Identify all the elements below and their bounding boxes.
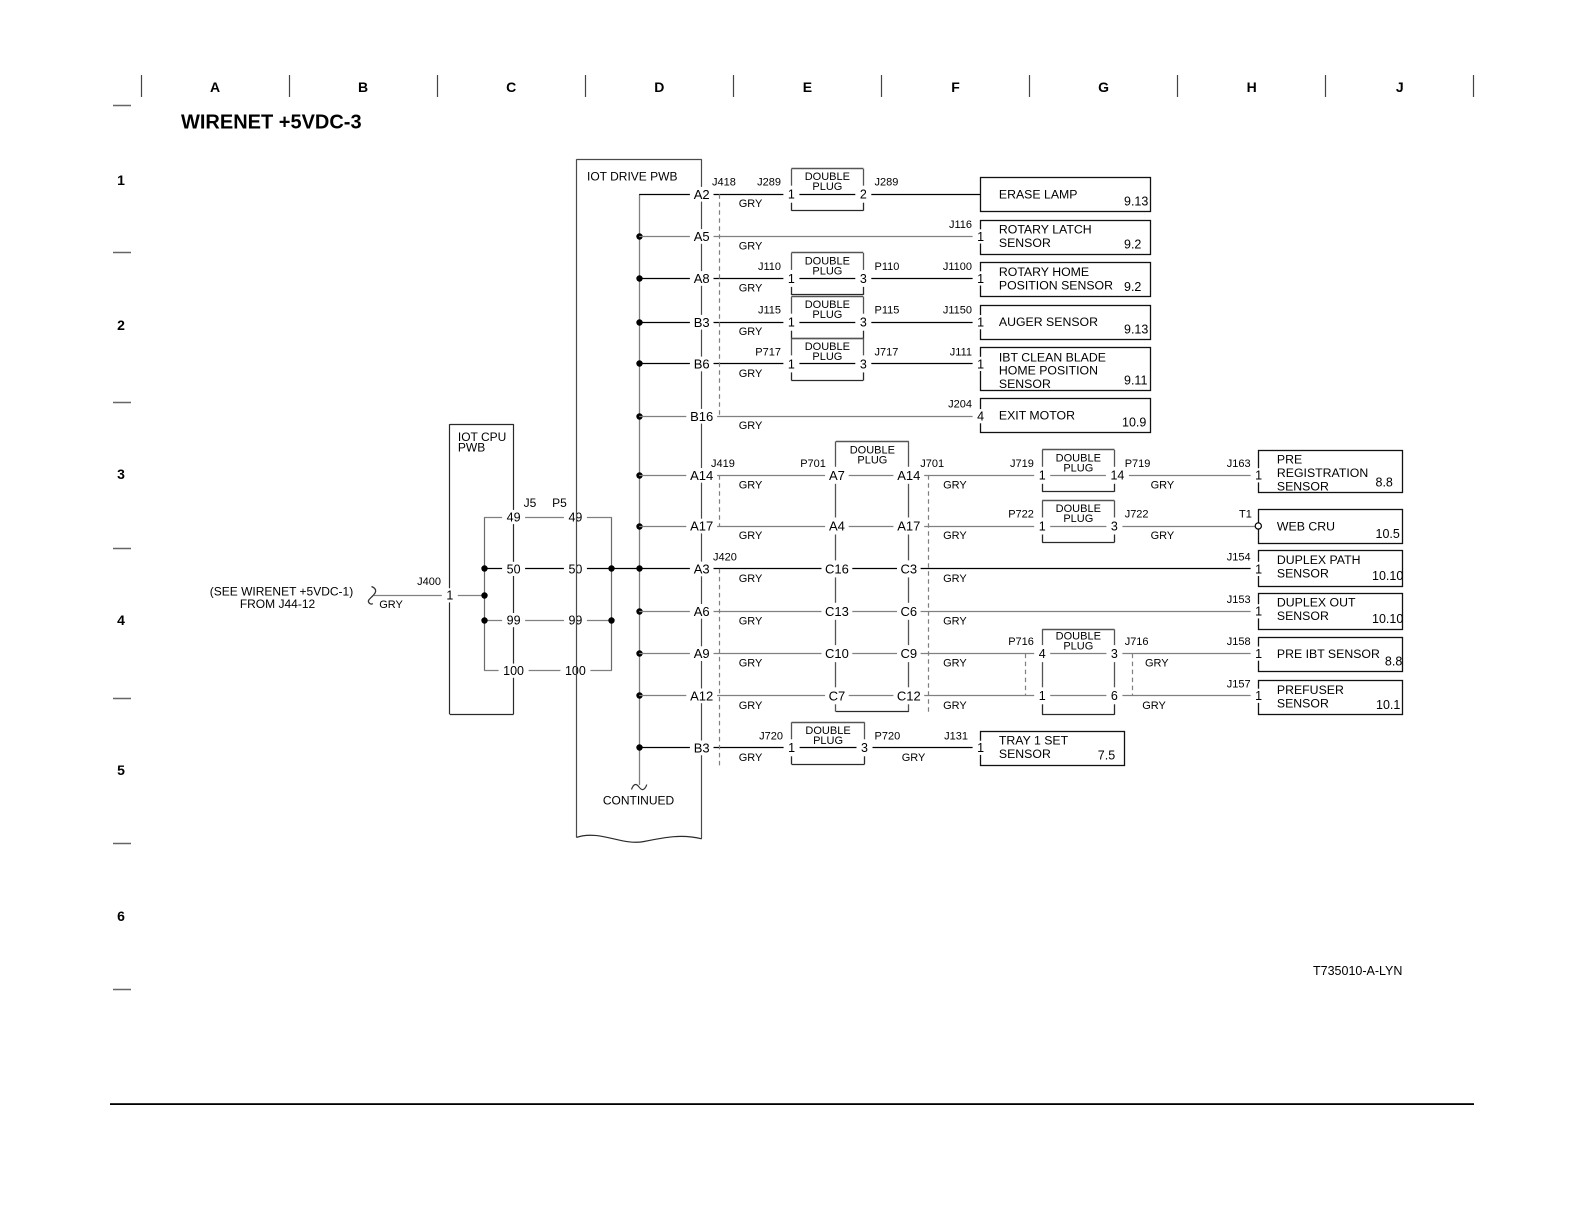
svg-text:2: 2 xyxy=(860,188,867,202)
svg-text:1: 1 xyxy=(788,357,795,371)
svg-text:F: F xyxy=(951,79,960,95)
svg-text:A5: A5 xyxy=(694,229,710,244)
svg-text:A9: A9 xyxy=(694,646,710,661)
svg-text:6: 6 xyxy=(1111,689,1118,703)
svg-text:10.10: 10.10 xyxy=(1372,569,1403,583)
svg-text:P717: P717 xyxy=(755,346,781,358)
svg-text:14: 14 xyxy=(1110,469,1124,483)
svg-text:J157: J157 xyxy=(1227,678,1251,690)
svg-text:2: 2 xyxy=(117,317,125,333)
svg-text:SENSOR: SENSOR xyxy=(999,377,1051,391)
rotary home position sensor xyxy=(973,263,1151,297)
svg-text:1: 1 xyxy=(788,741,795,755)
svg-text:GRY: GRY xyxy=(739,573,763,585)
svg-text:J720: J720 xyxy=(759,730,783,742)
svg-text:IOT DRIVE PWB: IOT DRIVE PWB xyxy=(587,170,677,184)
svg-text:1: 1 xyxy=(446,589,453,603)
svg-text:SENSOR: SENSOR xyxy=(1277,567,1329,581)
auger sensor xyxy=(973,306,1151,340)
connector J418 dashed line xyxy=(719,194,721,416)
svg-text:3: 3 xyxy=(1111,519,1118,533)
svg-text:J289: J289 xyxy=(757,177,781,189)
svg-text:C7: C7 xyxy=(829,688,846,703)
exit motor xyxy=(973,399,1151,433)
svg-text:PLUG: PLUG xyxy=(1063,462,1093,474)
double plug DP J115/P115 xyxy=(783,297,871,339)
svg-text:A4: A4 xyxy=(829,519,845,534)
IOT DRIVE PWB pin A14 xyxy=(686,468,717,483)
J5 pin labels 49/50/99/100 xyxy=(499,510,529,678)
svg-text:B6: B6 xyxy=(694,356,710,371)
svg-text:1: 1 xyxy=(977,741,984,755)
wire row B3 xyxy=(639,322,980,324)
svg-text:DUPLEX OUT: DUPLEX OUT xyxy=(1277,596,1356,610)
erase lamp xyxy=(981,178,1151,212)
svg-text:WEB CRU: WEB CRU xyxy=(1277,520,1335,534)
svg-text:A17: A17 xyxy=(690,519,713,534)
svg-text:EXIT MOTOR: EXIT MOTOR xyxy=(999,408,1075,422)
svg-text:PLUG: PLUG xyxy=(812,351,842,363)
svg-text:J115: J115 xyxy=(758,305,781,317)
svg-text:PRE: PRE xyxy=(1277,453,1302,467)
svg-text:A14: A14 xyxy=(690,468,713,483)
svg-text:TRAY 1 SET: TRAY 1 SET xyxy=(999,734,1069,748)
column header letters xyxy=(210,79,1404,95)
IOT DRIVE PWB pin A3 xyxy=(690,562,714,577)
svg-text:GRY: GRY xyxy=(739,368,763,380)
svg-text:ROTARY LATCH: ROTARY LATCH xyxy=(999,223,1092,237)
svg-text:100: 100 xyxy=(503,664,524,678)
labels GRY B3b xyxy=(739,752,926,764)
svg-text:J717: J717 xyxy=(875,346,899,358)
svg-text:10.10: 10.10 xyxy=(1372,612,1403,626)
duplex path sensor xyxy=(1251,551,1404,587)
svg-text:C16: C16 xyxy=(825,561,849,576)
svg-text:J110: J110 xyxy=(758,261,781,273)
IOT DRIVE PWB pin B3 xyxy=(690,741,714,756)
svg-text:SENSOR: SENSOR xyxy=(1277,609,1329,623)
svg-text:WIRENET +5VDC-3: WIRENET +5VDC-3 xyxy=(181,112,362,134)
svg-text:P722: P722 xyxy=(1008,509,1034,521)
svg-text:A: A xyxy=(210,79,220,95)
svg-text:1: 1 xyxy=(1039,689,1046,703)
svg-text:H: H xyxy=(1247,79,1257,95)
svg-text:IBT CLEAN BLADE: IBT CLEAN BLADE xyxy=(999,350,1106,364)
svg-text:J163: J163 xyxy=(1227,458,1251,470)
svg-text:ROTARY HOME: ROTARY HOME xyxy=(999,265,1089,279)
svg-text:1: 1 xyxy=(977,272,984,286)
svg-text:B16: B16 xyxy=(690,409,713,424)
svg-text:J5: J5 xyxy=(524,496,537,510)
svg-text:B3: B3 xyxy=(694,740,710,755)
wire row A5 xyxy=(639,236,980,238)
svg-text:GRY: GRY xyxy=(739,420,763,432)
junction dots P5 bracket xyxy=(608,565,614,623)
svg-text:GRY: GRY xyxy=(739,282,763,294)
svg-text:C: C xyxy=(506,79,516,95)
wire row A8 xyxy=(639,278,980,280)
column header ticks xyxy=(142,75,1474,97)
svg-text:A2: A2 xyxy=(694,187,710,202)
bottom rule xyxy=(110,1103,1474,1105)
svg-text:J131: J131 xyxy=(944,730,968,742)
svg-text:J1150: J1150 xyxy=(943,305,972,317)
svg-text:P5: P5 xyxy=(552,496,567,510)
bus junction dots xyxy=(636,233,642,750)
left margin row dashes xyxy=(113,106,131,990)
svg-text:3: 3 xyxy=(117,466,125,482)
svg-text:7.5: 7.5 xyxy=(1098,748,1115,762)
svg-text:J1100: J1100 xyxy=(943,261,972,273)
svg-text:4: 4 xyxy=(117,612,125,628)
svg-text:G: G xyxy=(1098,79,1109,95)
P5 bracket (right) xyxy=(611,517,613,671)
wire row A6 xyxy=(639,611,1258,613)
svg-text:A12: A12 xyxy=(690,688,713,703)
wire row A3 xyxy=(639,568,1258,570)
svg-text:T735010-A-LYN: T735010-A-LYN xyxy=(1313,964,1402,978)
IOT CPU PWB box xyxy=(450,424,514,714)
svg-text:PLUG: PLUG xyxy=(812,309,842,321)
svg-text:PWB: PWB xyxy=(458,441,485,455)
svg-text:1: 1 xyxy=(977,316,984,330)
wire J400 to IOT CPU PWB xyxy=(374,595,484,597)
svg-text:1: 1 xyxy=(1255,562,1262,576)
svg-text:1: 1 xyxy=(788,272,795,286)
IBT clean blade home position sensor xyxy=(973,348,1151,392)
bus break squiggle xyxy=(632,785,647,790)
svg-text:GRY: GRY xyxy=(943,615,967,627)
svg-text:B: B xyxy=(358,79,368,95)
wire row A17 xyxy=(639,526,1255,528)
wire row 99 (J5-P5) xyxy=(484,620,612,622)
IOT DRIVE PWB pin B16 xyxy=(686,409,717,424)
prefuser sensor xyxy=(1251,681,1403,715)
double plug DP J719/P719 xyxy=(1034,450,1129,492)
wire row A2 xyxy=(639,194,980,196)
double plug P716/J716 xyxy=(1034,629,1122,714)
svg-text:PRE IBT SENSOR: PRE IBT SENSOR xyxy=(1277,647,1380,661)
double plug DP J720/P720 xyxy=(784,722,873,764)
svg-text:P720: P720 xyxy=(875,730,901,742)
svg-text:A17: A17 xyxy=(897,519,920,534)
svg-text:J419: J419 xyxy=(711,458,735,470)
svg-text:8.8: 8.8 xyxy=(1385,655,1402,669)
wire row 49 (J5-P5) xyxy=(484,517,612,519)
svg-text:A6: A6 xyxy=(694,604,710,619)
wire break squiggle at J400 feed xyxy=(368,587,375,605)
double plug DP J110/P110 xyxy=(783,253,871,295)
labels GRY A3 xyxy=(739,573,968,585)
svg-text:C13: C13 xyxy=(825,604,849,619)
svg-text:1: 1 xyxy=(977,357,984,371)
wire row 50 (J5-P5 to bus) xyxy=(484,568,639,570)
wire row B3b xyxy=(639,747,980,749)
svg-text:3: 3 xyxy=(861,741,868,755)
svg-text:J418: J418 xyxy=(712,177,736,189)
connector J5 / P5 labels xyxy=(524,496,568,510)
svg-text:AUGER SENSOR: AUGER SENSOR xyxy=(999,315,1098,329)
connector J701 dashed line xyxy=(928,475,930,713)
svg-text:GRY: GRY xyxy=(739,198,763,210)
svg-text:PLUG: PLUG xyxy=(813,735,843,747)
svg-text:GRY: GRY xyxy=(739,326,763,338)
pre IBT sensor xyxy=(1251,638,1403,672)
svg-text:1: 1 xyxy=(1039,519,1046,533)
svg-text:REGISTRATION: REGISTRATION xyxy=(1277,466,1368,480)
svg-text:SENSOR: SENSOR xyxy=(1277,479,1329,493)
svg-text:50: 50 xyxy=(568,562,582,576)
svg-text:GRY: GRY xyxy=(902,752,926,764)
+5VDC bus inside IOT DRIVE PWB xyxy=(639,194,641,785)
left margin row numbers xyxy=(117,172,125,924)
svg-text:D: D xyxy=(654,79,664,95)
svg-text:1: 1 xyxy=(1255,647,1262,661)
svg-text:J154: J154 xyxy=(1227,551,1251,563)
svg-text:50: 50 xyxy=(507,562,521,576)
svg-text:1: 1 xyxy=(1255,469,1262,483)
svg-text:6: 6 xyxy=(117,908,125,924)
svg-text:49: 49 xyxy=(507,510,521,524)
IOT DRIVE PWB pin A17 xyxy=(686,519,717,534)
svg-text:B3: B3 xyxy=(694,315,710,330)
svg-text:1: 1 xyxy=(788,188,795,202)
wire row A14 xyxy=(639,475,1258,477)
labels GRY A17 xyxy=(739,530,1175,542)
svg-text:1: 1 xyxy=(788,316,795,330)
svg-text:T1: T1 xyxy=(1239,509,1252,521)
svg-text:DUPLEX PATH: DUPLEX PATH xyxy=(1277,553,1361,567)
svg-text:1: 1 xyxy=(1255,605,1262,619)
svg-text:10.9: 10.9 xyxy=(1122,416,1146,430)
wire row A9 xyxy=(639,653,1258,655)
labels GRY A12 xyxy=(739,700,1167,712)
tray 1 set sensor xyxy=(973,732,1125,766)
svg-text:J158: J158 xyxy=(1227,636,1251,648)
connector J419 dashed line xyxy=(719,475,721,526)
svg-text:GRY: GRY xyxy=(943,658,967,670)
svg-text:P719: P719 xyxy=(1125,458,1151,470)
double plug DP J289 xyxy=(783,169,871,211)
svg-text:P716: P716 xyxy=(1008,636,1034,648)
svg-text:GRY: GRY xyxy=(739,615,763,627)
junction dots J5 bracket xyxy=(481,565,487,623)
svg-text:3: 3 xyxy=(1111,647,1118,661)
IOT DRIVE PWB pin A2 xyxy=(690,187,714,202)
svg-text:4: 4 xyxy=(977,410,984,424)
svg-text:J111: J111 xyxy=(950,346,972,358)
svg-text:1: 1 xyxy=(117,172,125,188)
svg-text:GRY: GRY xyxy=(739,479,763,491)
svg-text:POSITION SENSOR: POSITION SENSOR xyxy=(999,279,1113,293)
svg-text:100: 100 xyxy=(565,664,586,678)
svg-text:8.8: 8.8 xyxy=(1376,476,1393,490)
svg-text:49: 49 xyxy=(568,510,582,524)
svg-text:PLUG: PLUG xyxy=(812,265,842,277)
svg-text:GRY: GRY xyxy=(1151,479,1175,491)
svg-text:FROM J44-12: FROM J44-12 xyxy=(240,597,316,611)
svg-text:9.13: 9.13 xyxy=(1124,195,1148,209)
svg-text:9.2: 9.2 xyxy=(1124,280,1141,294)
svg-text:1: 1 xyxy=(977,230,984,244)
svg-text:J400: J400 xyxy=(417,576,441,588)
svg-text:C10: C10 xyxy=(825,646,849,661)
svg-text:4: 4 xyxy=(1039,647,1046,661)
svg-text:GRY: GRY xyxy=(739,530,763,542)
svg-text:GRY: GRY xyxy=(739,752,763,764)
rotary latch sensor xyxy=(973,221,1151,255)
svg-text:J: J xyxy=(1396,79,1404,95)
svg-text:PLUG: PLUG xyxy=(1063,513,1093,525)
IOT DRIVE PWB box xyxy=(576,159,701,842)
svg-text:99: 99 xyxy=(507,614,521,628)
svg-text:C12: C12 xyxy=(897,688,921,703)
svg-text:10.1: 10.1 xyxy=(1376,698,1400,712)
svg-text:J204: J204 xyxy=(948,399,972,411)
svg-text:GRY: GRY xyxy=(1145,658,1169,670)
svg-text:9.11: 9.11 xyxy=(1124,374,1147,388)
svg-text:99: 99 xyxy=(568,614,582,628)
svg-text:J420: J420 xyxy=(713,551,737,563)
svg-text:PLUG: PLUG xyxy=(1063,641,1093,653)
svg-text:PLUG: PLUG xyxy=(812,181,842,193)
labels GRY A6 xyxy=(739,615,968,627)
svg-text:P701: P701 xyxy=(800,458,826,470)
svg-text:A8: A8 xyxy=(694,271,710,286)
svg-text:C6: C6 xyxy=(900,604,917,619)
wire row A12 xyxy=(639,695,1258,697)
note (SEE WIRENET +5VDC-1) FROM J44-12 xyxy=(210,585,353,612)
IOT DRIVE PWB pin A5 xyxy=(690,229,714,244)
svg-text:GRY: GRY xyxy=(379,599,403,611)
IOT DRIVE PWB pin B6 xyxy=(690,357,714,372)
svg-text:GRY: GRY xyxy=(943,479,967,491)
svg-text:J116: J116 xyxy=(949,219,972,231)
svg-text:SENSOR: SENSOR xyxy=(999,747,1051,761)
svg-text:GRY: GRY xyxy=(1142,700,1166,712)
svg-text:3: 3 xyxy=(860,357,867,371)
svg-text:PREFUSER: PREFUSER xyxy=(1277,683,1344,697)
svg-text:PLUG: PLUG xyxy=(857,454,887,466)
svg-text:J701: J701 xyxy=(920,458,944,470)
svg-text:9.13: 9.13 xyxy=(1124,323,1148,337)
svg-text:ERASE LAMP: ERASE LAMP xyxy=(999,187,1078,201)
J5 bracket (left) xyxy=(484,517,486,671)
svg-text:P110: P110 xyxy=(875,261,900,273)
pre registration sensor xyxy=(1251,451,1403,494)
svg-text:3: 3 xyxy=(860,316,867,330)
svg-text:GRY: GRY xyxy=(739,658,763,670)
svg-text:C9: C9 xyxy=(900,646,917,661)
pin 1 of J400 on IOT CPU PWB edge xyxy=(442,588,458,602)
svg-text:GRY: GRY xyxy=(943,700,967,712)
wire row B6 xyxy=(639,363,980,365)
double plug DP P717/J717 xyxy=(783,338,871,380)
labels GRY A14 xyxy=(739,479,1175,491)
IOT DRIVE PWB pin A6 xyxy=(690,604,714,619)
svg-text:P115: P115 xyxy=(875,305,900,317)
svg-text:GRY: GRY xyxy=(1151,530,1175,542)
labels GRY A9 xyxy=(739,658,1170,670)
IOT DRIVE PWB pin A9 xyxy=(690,646,714,661)
svg-text:3: 3 xyxy=(860,272,867,286)
svg-text:GRY: GRY xyxy=(739,240,763,252)
svg-text:J716: J716 xyxy=(1125,636,1149,648)
svg-text:E: E xyxy=(803,79,812,95)
web CRU xyxy=(1259,510,1403,544)
wire row 100 (J5-P5) xyxy=(484,670,612,672)
svg-text:A7: A7 xyxy=(829,468,845,483)
svg-text:GRY: GRY xyxy=(739,700,763,712)
double plug DP P722/J722 xyxy=(1034,501,1122,543)
svg-text:J722: J722 xyxy=(1125,509,1149,521)
svg-text:A3: A3 xyxy=(694,561,710,576)
IOT DRIVE PWB pin A12 xyxy=(686,689,717,704)
IOT DRIVE PWB pin A8 xyxy=(690,271,714,286)
svg-text:GRY: GRY xyxy=(943,573,967,585)
svg-text:HOME POSITION: HOME POSITION xyxy=(999,364,1098,378)
WEB CRU terminal circle xyxy=(1255,523,1261,529)
svg-text:GRY: GRY xyxy=(943,530,967,542)
svg-text:1: 1 xyxy=(1039,469,1046,483)
IOT DRIVE PWB pin B3 xyxy=(690,315,714,330)
double plug P701/J701 (multi-row) xyxy=(822,441,925,711)
duplex out sensor xyxy=(1251,594,1404,630)
svg-text:10.5: 10.5 xyxy=(1376,527,1400,541)
wire row B16 xyxy=(639,416,980,418)
svg-text:1: 1 xyxy=(1255,689,1262,703)
svg-text:SENSOR: SENSOR xyxy=(999,236,1051,250)
svg-text:J289: J289 xyxy=(875,177,899,189)
connector J420 dashed line xyxy=(719,569,721,767)
svg-text:CONTINUED: CONTINUED xyxy=(603,794,675,808)
svg-text:J153: J153 xyxy=(1227,594,1251,606)
svg-text:SENSOR: SENSOR xyxy=(1277,696,1329,710)
svg-text:A14: A14 xyxy=(897,468,920,483)
svg-text:5: 5 xyxy=(117,762,125,778)
svg-text:J719: J719 xyxy=(1010,458,1034,470)
P5 pin labels 49/50/99/100 xyxy=(560,510,590,678)
svg-text:C3: C3 xyxy=(900,561,917,576)
connector P716 dashed stubs xyxy=(1025,654,1027,696)
svg-text:9.2: 9.2 xyxy=(1124,237,1141,251)
